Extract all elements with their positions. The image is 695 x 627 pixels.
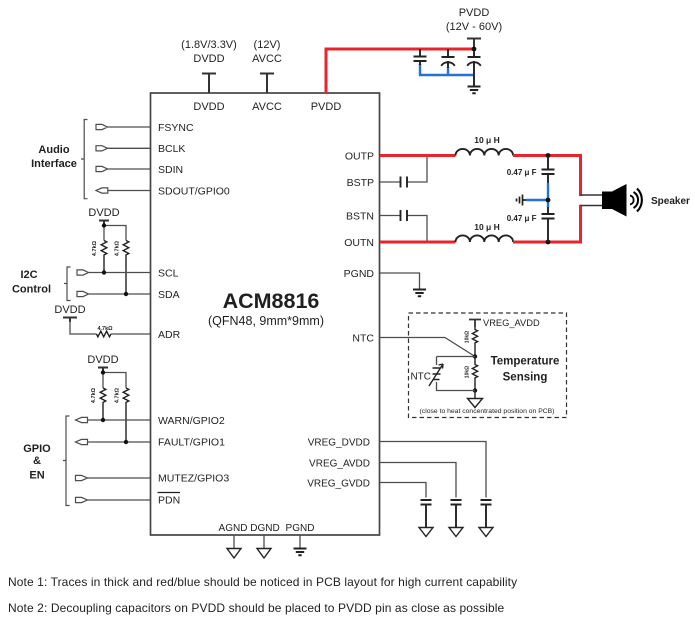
svg-text:Temperature: Temperature <box>491 356 560 368</box>
junction DVDD pull-up node <box>102 223 106 227</box>
svg-text:ADR: ADR <box>158 329 181 341</box>
ground VREG_AVDD (open triangle) <box>449 528 463 537</box>
junction filter midpoint <box>546 198 551 203</box>
junction NTC divider node <box>473 354 477 358</box>
wire SDIN <box>108 168 151 170</box>
svg-text:VREG_AVDD: VREG_AVDD <box>483 318 540 328</box>
svg-text:SDA: SDA <box>158 289 180 301</box>
wire ADR right segment <box>111 333 150 335</box>
connector SDIN input arrow <box>96 166 108 171</box>
resistor 4.7k SCL pull-up <box>101 241 107 273</box>
svg-text:(12V - 60V): (12V - 60V) <box>446 21 502 33</box>
thermistor NTC element <box>433 368 441 380</box>
svg-text:(QFN48, 9mm*9mm): (QFN48, 9mm*9mm) <box>208 314 324 328</box>
capacitor VREG_AVDD decoupling <box>451 500 462 527</box>
svg-text:Speaker: Speaker <box>651 196 690 207</box>
svg-text:FSYNC: FSYNC <box>158 122 194 134</box>
connector WARN/GPIO2 output arrow <box>76 417 88 422</box>
wire OUTP red trace <box>380 154 456 157</box>
connector SCL input arrow <box>77 270 89 275</box>
wire FSYNC <box>108 126 151 128</box>
ground VREG_GVDD (open triangle) <box>419 528 433 537</box>
capacitor C1 PVDD decoupling <box>414 49 427 65</box>
wire BSTP <box>380 157 427 182</box>
svg-text:VREG_AVDD: VREG_AVDD <box>309 459 370 470</box>
svg-text:OUTP: OUTP <box>345 151 374 163</box>
wire SDOUT/GPIO0 <box>108 190 150 192</box>
svg-text:DVDD: DVDD <box>54 304 85 316</box>
svg-text:4.7kΩ: 4.7kΩ <box>91 387 97 403</box>
wire speaker lead - <box>581 205 603 207</box>
thermistor NTC wires <box>437 357 476 391</box>
junction WARN pull-up <box>101 418 105 422</box>
speaker SPK1 <box>602 184 627 217</box>
wire OUTN red to speaker <box>513 205 581 242</box>
junction OUTN filter node <box>546 240 551 245</box>
svg-text:SCL: SCL <box>158 268 179 280</box>
svg-text:PGND: PGND <box>344 268 375 280</box>
connector FAULT/GPIO1 output arrow <box>76 439 88 444</box>
svg-text:PVDD: PVDD <box>311 101 342 113</box>
ground temp divider (open triangle) <box>468 391 483 408</box>
power terminal DVDD ADR <box>63 318 77 323</box>
svg-text:I2C: I2C <box>20 269 37 281</box>
svg-text:BSTN: BSTN <box>346 211 374 223</box>
svg-text:VREG_DVDD: VREG_DVDD <box>308 438 370 449</box>
power terminal AVCC <box>260 74 274 94</box>
wire FAULT/GPIO1 <box>88 441 151 443</box>
wire blue filter midpoint <box>526 183 548 207</box>
svg-text:BSTP: BSTP <box>347 177 374 189</box>
svg-text:4.7kΩ: 4.7kΩ <box>92 240 98 256</box>
ground filter midpoint (small, rotated) <box>517 195 527 206</box>
junction SDA pull-up <box>124 292 128 296</box>
resistor 4.7k SDA pull-up <box>123 241 129 295</box>
svg-text:4.7kΩ: 4.7kΩ <box>97 326 113 332</box>
resistor 4.7k FAULT pull-up <box>123 388 129 442</box>
wire OUTN red trace <box>380 241 456 244</box>
IC U1 ACM8816 body <box>151 93 380 535</box>
bracket GPIO group <box>63 416 70 506</box>
wire NTC <box>380 338 475 357</box>
svg-text:WARN/GPIO2: WARN/GPIO2 <box>158 415 225 427</box>
junction NTC bottom node <box>473 388 477 392</box>
svg-text:GPIO: GPIO <box>23 443 51 455</box>
ground PVDD decoupling (earth) <box>468 87 481 94</box>
wire VREG_AVDD <box>380 463 456 498</box>
svg-text:ACM8816: ACM8816 <box>223 289 320 313</box>
bracket I2C group <box>64 267 71 301</box>
svg-text:PVDD: PVDD <box>459 7 490 19</box>
connector SDOUT/GPIO0 output arrow <box>96 188 108 193</box>
wire pull-up bus I2C <box>104 226 126 241</box>
svg-text:EN: EN <box>29 470 44 482</box>
wire BSTN <box>380 216 427 241</box>
ground AGND (open triangle) <box>227 549 241 559</box>
svg-text:Control: Control <box>12 284 51 296</box>
wire SCL <box>89 272 151 274</box>
svg-text:MUTEZ/GPIO3: MUTEZ/GPIO3 <box>158 473 229 485</box>
svg-text:4.7kΩ: 4.7kΩ <box>115 387 121 403</box>
svg-text:10 μ H: 10 μ H <box>474 222 500 232</box>
svg-text:NTC: NTC <box>410 372 431 383</box>
svg-text:DVDD: DVDD <box>87 354 118 366</box>
connector FSYNC input arrow <box>96 124 108 129</box>
ground PGND (earth) <box>413 290 426 297</box>
power terminal DVDD <box>202 74 216 94</box>
capacitor 0.47uF upper <box>542 156 555 184</box>
svg-text:AGND: AGND <box>219 523 248 534</box>
junction PVDD node <box>472 47 477 52</box>
capacitor VREG_DVDD decoupling <box>481 500 492 527</box>
power terminal DVDD GPIO <box>98 368 108 373</box>
svg-text:Audio: Audio <box>38 144 69 156</box>
svg-text:FAULT/GPIO1: FAULT/GPIO1 <box>158 437 225 449</box>
capacitor BSTN bootstrap <box>401 210 408 221</box>
connector PDN input arrow <box>76 497 88 502</box>
capacitor C2 PVDD decoupling (polarized) <box>441 49 455 68</box>
svg-text:10kΩ: 10kΩ <box>465 331 471 343</box>
svg-text:AVCC: AVCC <box>252 101 282 113</box>
wire VREG_DVDD <box>380 442 486 498</box>
resistor 10k lower divider <box>472 357 477 391</box>
connector MUTEZ/GPIO3 input arrow <box>76 475 88 480</box>
svg-text:PDN: PDN <box>158 495 180 507</box>
svg-text:DVDD: DVDD <box>88 207 119 219</box>
svg-text:BCLK: BCLK <box>158 143 185 155</box>
svg-text:0.47 μ F: 0.47 μ F <box>507 168 537 177</box>
junction SCL pull-up <box>102 270 106 274</box>
wire PDN <box>88 499 151 501</box>
capacitor VREG_GVDD decoupling <box>421 500 432 527</box>
pin PGND wire <box>299 535 301 548</box>
svg-text:SDOUT/GPIO0: SDOUT/GPIO0 <box>158 186 230 198</box>
junction FAULT pull-up <box>124 440 128 444</box>
connector BCLK input arrow <box>96 146 108 151</box>
svg-text:10 μ H: 10 μ H <box>474 135 500 145</box>
wire PVDD red trace to chip <box>326 49 474 93</box>
ground PGND bottom (earth) <box>294 549 307 556</box>
svg-text:NTC: NTC <box>352 333 374 345</box>
svg-text:Note 2: Decoupling capacitors: Note 2: Decoupling capacitors on PVDD sh… <box>8 601 505 615</box>
wire BCLK <box>108 147 151 149</box>
svg-text:DGND: DGND <box>250 523 279 534</box>
bracket audio interface group <box>81 120 88 199</box>
wire SDA <box>89 293 151 295</box>
svg-text:4.7kΩ: 4.7kΩ <box>115 240 121 256</box>
svg-text:AVCC: AVCC <box>252 53 282 65</box>
junction OUTP filter node <box>546 153 551 158</box>
svg-text:VREG_GVDD: VREG_GVDD <box>307 479 370 490</box>
svg-text:DVDD: DVDD <box>193 101 224 113</box>
wire VREG_GVDD <box>380 483 426 498</box>
svg-text:OUTN: OUTN <box>344 237 374 249</box>
pin DGND wire <box>263 535 265 549</box>
capacitor 0.47uF lower <box>542 207 555 242</box>
resistor 4.7k ADR <box>97 331 111 337</box>
power terminal VREG_AVDD <box>469 320 481 328</box>
wire blue ground bus of decoupling caps <box>420 64 474 75</box>
svg-text:(12V): (12V) <box>254 39 281 51</box>
svg-text:10kΩ: 10kΩ <box>465 366 471 378</box>
resistor 4.7k WARN pull-up <box>100 388 106 420</box>
svg-text:Interface: Interface <box>31 158 77 170</box>
svg-text:DVDD: DVDD <box>193 53 224 65</box>
inductor L1 10uH <box>456 149 514 156</box>
ground VREG_DVDD (open triangle) <box>479 528 493 537</box>
wire speaker lead + <box>581 194 603 196</box>
svg-text:0.47 μ F: 0.47 μ F <box>507 214 537 223</box>
svg-text:(close to heat concentrated po: (close to heat concentrated position on … <box>420 408 555 415</box>
svg-text:SDIN: SDIN <box>158 164 183 176</box>
wire MUTEZ/GPIO3 <box>88 477 151 479</box>
resistor 10k upper divider <box>472 327 477 357</box>
power terminal PVDD <box>467 39 481 50</box>
connector SDA input arrow <box>77 291 89 296</box>
svg-text:Sensing: Sensing <box>503 372 548 384</box>
wire OUTP red to speaker <box>513 156 581 197</box>
junction DVDD GPIO node <box>101 370 105 374</box>
wire WARN/GPIO2 <box>88 419 151 421</box>
svg-text:(1.8V/3.3V): (1.8V/3.3V) <box>181 39 237 51</box>
dashed box temperature sensing <box>409 313 567 418</box>
pin AGND wire <box>233 535 235 549</box>
power terminal DVDD I2C <box>99 221 109 226</box>
svg-text:&: & <box>33 455 41 467</box>
wire ADR left segment <box>70 321 97 334</box>
capacitor C3 PVDD decoupling (polarized) <box>467 51 481 86</box>
svg-text:Note 1: Traces in thick and re: Note 1: Traces in thick and red/blue sho… <box>8 575 517 589</box>
inductor L2 10uH <box>456 235 514 242</box>
capacitor BSTP bootstrap <box>401 177 408 188</box>
wire PGND <box>380 273 420 289</box>
ground DGND (open triangle) <box>257 549 271 559</box>
svg-text:PGND: PGND <box>286 523 315 534</box>
wire pull-up bus GPIO <box>103 373 126 389</box>
